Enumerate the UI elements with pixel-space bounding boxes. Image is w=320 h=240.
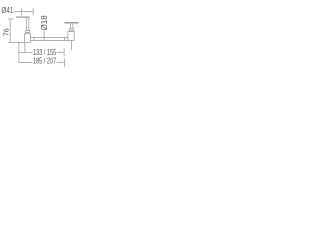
right post top cap (65, 22, 79, 24)
76 dimension top tick (8, 18, 13, 21)
dimension line 185/207 (19, 61, 65, 64)
label 185 / 207 (33, 56, 57, 65)
extension line far left (18, 42, 21, 63)
76 dimension bottom tick (8, 41, 24, 44)
right rosette (68, 31, 75, 41)
extension line right rosette center (70, 41, 73, 51)
extension tick left of Ø41 dimension (20, 8, 23, 15)
extension tick right of Ø41 dimension (32, 8, 35, 15)
right post stem left wall (69, 24, 72, 29)
label Ø18 (rotated) (40, 15, 48, 30)
dimension line 133/155 (19, 51, 65, 54)
bar left end cap (33, 37, 36, 41)
right collar (69, 28, 74, 31)
left collar (25, 30, 30, 33)
Ø18 leader line (43, 31, 46, 40)
left rosette (24, 33, 31, 43)
tick right end 185/207 (63, 59, 66, 68)
tick right end 133/155 (63, 48, 66, 57)
left post stem left wall (25, 18, 28, 31)
bar right end cap (63, 37, 66, 41)
extension line left rosette edge (24, 43, 27, 53)
label Ø41 (2, 6, 14, 14)
left post stem right wall (28, 18, 31, 31)
label 133 / 155 (33, 48, 57, 57)
left post top cap (16, 17, 29, 18)
76 dimension vertical line (9, 19, 12, 42)
leader line from Ø41 (14, 10, 34, 13)
right post stem right wall (72, 24, 75, 29)
bar tube bottom line (31, 39, 68, 42)
bar tube top line (31, 36, 68, 39)
label 76 (rotated) (3, 28, 10, 36)
